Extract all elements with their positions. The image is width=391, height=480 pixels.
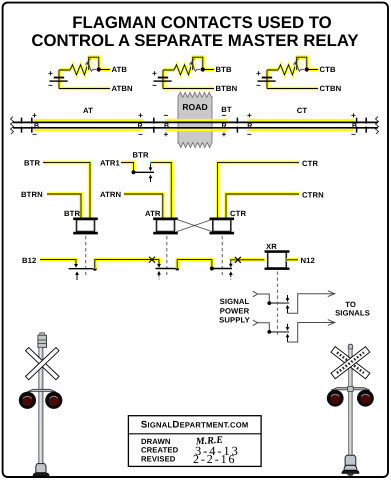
svg-text:XR: XR <box>266 242 277 251</box>
insulated joint ticks <box>22 118 367 133</box>
right signal lamp R1 <box>327 390 344 407</box>
contact bar B12-ATR <box>156 268 178 270</box>
junction node ATB <box>97 67 101 71</box>
rail yellow AT section <box>33 120 143 130</box>
svg-text:BTB: BTB <box>216 65 232 74</box>
right signal crossbuck CROSSING <box>331 347 370 379</box>
track rails <box>11 105 379 139</box>
svg-text:−: − <box>164 111 169 120</box>
contact arrow up BTR <box>149 175 153 182</box>
svg-text:−: − <box>256 81 261 90</box>
road crossing band <box>178 92 212 147</box>
svg-text:+: + <box>48 69 53 78</box>
wire to signals bottom <box>288 323 334 343</box>
svg-text:+: + <box>256 69 261 78</box>
svg-text:B: B <box>34 123 39 130</box>
dashed link ATR <box>166 236 168 275</box>
svg-text:CTR: CTR <box>230 209 246 218</box>
wire contact loop BTB <box>193 57 214 70</box>
wire BTR feed <box>43 162 90 218</box>
left signal lamp L2 <box>45 392 62 409</box>
contact arrow up B12-ATR <box>157 271 161 281</box>
label TO SIGNALS <box>335 300 370 317</box>
svg-text:BTR: BTR <box>24 158 40 167</box>
svg-text:ATR1: ATR1 <box>100 158 121 167</box>
junction node B12-BTR <box>93 267 97 271</box>
right signal base disc <box>347 473 353 476</box>
track polarity marks <box>32 111 357 139</box>
rail yellow BT section <box>165 120 227 130</box>
svg-text:BTRN: BTRN <box>21 190 43 199</box>
right signal finial <box>348 344 353 349</box>
cut mark X on wire <box>149 257 155 263</box>
cut mark X on wire <box>235 257 241 263</box>
svg-text:+: + <box>164 130 169 139</box>
svg-text:CONTROL A SEPARATE MASTER RELA: CONTROL A SEPARATE MASTER RELAY <box>31 31 358 50</box>
contact bar B12-CTR <box>212 268 232 270</box>
svg-text:CTRN: CTRN <box>302 191 324 200</box>
right signal bracket <box>331 388 370 391</box>
right signal base flare <box>344 465 357 470</box>
wire B12 to BTR contact <box>40 260 76 265</box>
svg-text:−: − <box>48 81 53 90</box>
contact bar XR top <box>269 302 289 304</box>
wire battery loop ATB <box>59 70 110 89</box>
svg-text:SIGNAL: SIGNAL <box>220 297 250 306</box>
left signal base plate <box>33 473 49 477</box>
wire CTRN <box>226 194 299 218</box>
junction node BTB <box>201 67 205 71</box>
svg-text:CREATED: CREATED <box>141 446 179 455</box>
circuit ATB group <box>48 57 133 93</box>
wire supply bottom <box>258 323 270 331</box>
relay BTR <box>64 209 98 234</box>
title block frame <box>128 416 261 467</box>
flagman contact BTB <box>189 59 200 72</box>
svg-text:+: + <box>247 111 252 120</box>
resistor CTB <box>278 65 297 75</box>
junction node ATR1 heel <box>132 170 136 174</box>
svg-text:+: + <box>351 111 356 120</box>
junction node CTB <box>305 67 309 71</box>
contact bar XR bottom <box>269 331 289 333</box>
contact arrow up B12-CTR <box>229 271 233 281</box>
contact arrow up B12-BTR <box>75 271 79 280</box>
right signal crossbuck RAILROAD <box>331 347 370 379</box>
title block divider <box>128 433 261 435</box>
svg-text:BTR: BTR <box>133 151 149 160</box>
contact arrow down B12-ATR <box>157 264 161 268</box>
junction node B12-ATR <box>175 267 179 271</box>
dashed link XR <box>277 272 279 337</box>
svg-text:ROAD: ROAD <box>182 102 207 112</box>
svg-text:AT: AT <box>83 106 93 115</box>
relay ATR <box>145 209 178 234</box>
svg-text:BT: BT <box>221 105 232 114</box>
wire to signals top <box>288 294 334 314</box>
contact bar B12-BTR <box>69 268 95 270</box>
arrowhead top <box>328 291 335 297</box>
svg-text:ATBN: ATBN <box>112 84 134 93</box>
wire BTR contact to ATR contact <box>95 260 159 269</box>
relay XR <box>265 242 290 270</box>
resistor BTB <box>174 65 193 75</box>
rail bottom black <box>13 127 378 129</box>
dashed link CTR <box>221 236 223 275</box>
rail break zigzag right <box>376 117 379 135</box>
wire XR to N12 <box>286 258 298 262</box>
svg-text:BTBN: BTBN <box>216 84 238 93</box>
svg-text:+: + <box>222 130 227 139</box>
wire battery loop BTB <box>163 70 214 89</box>
wire CTR contact to XR <box>231 260 265 261</box>
supply chevron bottom <box>253 320 258 326</box>
left signal pole <box>39 347 43 464</box>
svg-text:−: − <box>32 130 37 139</box>
svg-text:SUPPLY: SUPPLY <box>219 316 250 325</box>
battery C <box>256 69 276 90</box>
contact arrow down B12-CTR <box>229 261 233 268</box>
svg-text:−: − <box>138 130 143 139</box>
wire BTRN <box>47 194 81 218</box>
svg-text:+: + <box>138 111 143 120</box>
flagman contact CTB <box>293 59 304 72</box>
rail top black <box>13 121 378 123</box>
wire CTR feed <box>218 162 300 218</box>
wire BTR contact to ATR <box>151 162 172 218</box>
left signal crossbuck <box>26 347 60 379</box>
junction node supply top <box>267 301 271 305</box>
supply chevron top <box>253 291 258 297</box>
right signal base collar <box>345 455 356 465</box>
svg-text:ATRN: ATRN <box>100 190 122 199</box>
wire contact loop ATB <box>89 57 110 70</box>
wire ATR contact to CTR contact <box>177 260 212 269</box>
svg-text:ATR: ATR <box>145 209 161 218</box>
wire ATRN <box>124 194 163 218</box>
contact bar BTR front contact <box>134 171 155 173</box>
left signal base collar <box>36 464 46 474</box>
title text <box>31 13 358 50</box>
wire ATR1 <box>121 162 134 171</box>
left signal junction box <box>40 333 45 336</box>
svg-text:CTBN: CTBN <box>320 84 342 93</box>
cross connection ATR-CTR <box>176 219 212 231</box>
svg-text:−: − <box>152 81 157 90</box>
svg-text:REVISED: REVISED <box>141 454 176 463</box>
flagman contact ATB <box>85 59 96 72</box>
dashed link BTR <box>85 236 87 275</box>
svg-text:B: B <box>352 123 357 130</box>
wire supply top <box>258 294 270 302</box>
rail yellow CT section <box>248 120 353 130</box>
svg-text:CT: CT <box>297 106 308 115</box>
left signal bracket <box>27 389 56 392</box>
svg-text:B: B <box>164 123 169 130</box>
resistor ATB <box>70 65 89 75</box>
rail break zigzag left <box>11 117 14 135</box>
svg-text:B12: B12 <box>22 256 36 265</box>
svg-text:+: + <box>152 69 157 78</box>
wire battery loop CTB <box>267 70 318 89</box>
svg-text:POWER: POWER <box>220 306 250 315</box>
wire contact loop CTB <box>297 57 318 70</box>
battery B <box>152 69 172 90</box>
svg-text:R: R <box>247 123 252 130</box>
svg-text:CTR: CTR <box>302 159 318 168</box>
right signal lamp R2 <box>357 390 374 407</box>
right signal base plate <box>342 470 359 473</box>
circuit BTB group <box>152 57 237 93</box>
relay CTR <box>210 209 247 234</box>
svg-text:+: + <box>32 111 37 120</box>
svg-text:−: − <box>351 130 356 139</box>
svg-text:ATB: ATB <box>112 65 128 74</box>
svg-text:FLAGMAN CONTACTS USED TO: FLAGMAN CONTACTS USED TO <box>72 13 331 32</box>
contact arrows XR bottom <box>286 324 290 342</box>
svg-text:SIGNALS: SIGNALS <box>335 309 370 318</box>
svg-text:2-2-16: 2-2-16 <box>193 452 236 466</box>
right signal pole <box>349 349 353 462</box>
svg-text:R: R <box>221 123 226 130</box>
arrowhead bottom <box>328 320 335 326</box>
svg-text:R: R <box>137 123 142 130</box>
contact arrow down BTR <box>149 164 153 172</box>
junction node supply bottom <box>267 330 271 334</box>
circuit CTB group <box>256 57 341 93</box>
svg-text:CTB: CTB <box>320 65 336 74</box>
junction node B12-CTR heel <box>210 267 214 271</box>
svg-text:N12: N12 <box>301 256 315 265</box>
svg-text:−: − <box>247 130 252 139</box>
label SIGNAL POWER SUPPLY <box>219 297 250 325</box>
battery A <box>48 69 68 90</box>
contact arrow down B12-BTR <box>74 264 78 268</box>
svg-text:BTR: BTR <box>64 209 80 218</box>
svg-text:SIGNALDEPARTMENT.COM: SIGNALDEPARTMENT.COM <box>141 420 249 431</box>
left signal lamp L1 <box>19 392 36 409</box>
contact arrows XR top <box>286 295 290 313</box>
